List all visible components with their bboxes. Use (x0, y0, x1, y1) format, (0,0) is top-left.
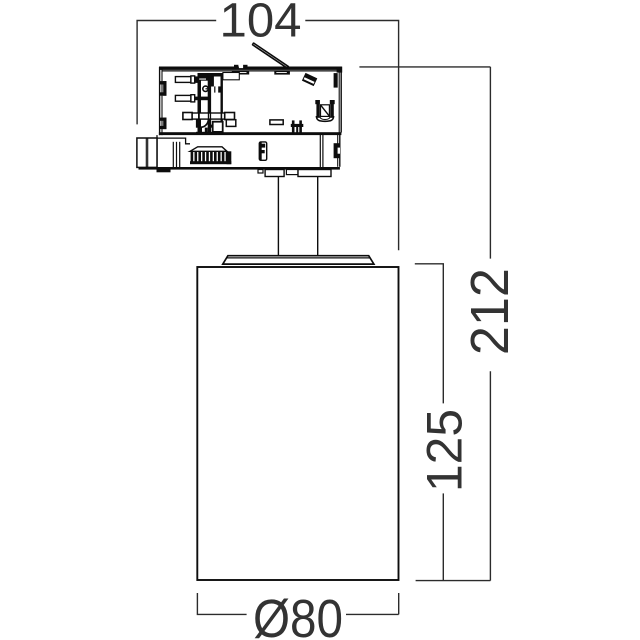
left wall clip upper (160, 81, 167, 96)
carrier column C2 (208, 73, 211, 134)
comb top plate (190, 147, 227, 152)
dim 104 left extension line (137, 21, 216, 125)
housing right wall outer (339, 135, 341, 167)
crossbar (192, 113, 226, 119)
small rect feature (270, 120, 283, 125)
crossbar vertical pass line a (208, 112, 210, 120)
svg-text:212: 212 (461, 268, 520, 355)
carrier left blob (198, 76, 208, 80)
mounting block c (298, 170, 331, 177)
svg-text:Ø80: Ø80 (253, 589, 343, 640)
adapter bottom edge (159, 132, 342, 135)
crossbar right block (225, 113, 235, 120)
adapter top edge (159, 67, 342, 70)
cylinder body (197, 267, 398, 580)
comb teeth (191, 151, 229, 161)
dim 212 line lower (489, 371, 491, 580)
housing right wall inner (337, 135, 339, 167)
left wall clip lower (160, 118, 167, 130)
stem left line (277, 177, 279, 255)
contact prong upper link (195, 76, 198, 83)
crossbar vertical pass line c (220, 112, 222, 120)
contact prong upper cap (191, 76, 195, 83)
carrier column C3 (221, 73, 223, 134)
dim 212 top extension line (359, 66, 490, 68)
crossbar right lower block (226, 120, 236, 127)
carrier column C1 (198, 73, 202, 134)
dim 125 line lower (442, 493, 444, 580)
U-bracket left post hook (315, 100, 320, 104)
crossbar left block (183, 113, 192, 120)
under-crossbar small black sq (210, 125, 212, 128)
mounting block a (265, 170, 284, 177)
carrier w2 dividers (214, 86, 215, 92)
adapter left wall inner (161, 68, 163, 135)
right C-clip (334, 143, 340, 158)
dim d80 left extension tick (197, 593, 246, 614)
comb base (190, 161, 231, 164)
right partition line a (319, 135, 321, 167)
dim 212 bottom extension line (416, 580, 491, 582)
U-bracket left post (316, 100, 319, 118)
carrier top bar (198, 73, 223, 77)
dim 104 right extension line (305, 21, 398, 251)
carrier lower band (194, 97, 209, 101)
U-bracket bottom curve (316, 116, 333, 121)
release lever outer line (253, 43, 288, 67)
adapter top contact pad right (274, 71, 290, 75)
adapter top contact pad left (232, 71, 249, 75)
adapter right wall inner (338, 70, 340, 133)
clip box (137, 138, 157, 167)
under-crossbar arc piece (201, 120, 209, 128)
slot feature dot (261, 150, 264, 153)
U-bracket right post hook (330, 100, 335, 104)
U-bracket right post (330, 100, 334, 118)
slot feature outline (259, 142, 266, 160)
slot feature top square (261, 144, 265, 148)
crossbar vertical pass line d (198, 112, 200, 120)
right partition line b (322, 135, 324, 167)
contact prong upper (175, 77, 191, 83)
carrier thin side box (223, 73, 239, 80)
housing left wall (156, 135, 158, 167)
release lever inner line (252, 45, 287, 69)
clip box inner line a (145, 138, 147, 167)
adapter left wall outer (159, 67, 161, 135)
tilted plate (302, 73, 317, 86)
contact prong lower (175, 95, 191, 101)
dim 125 line upper (442, 264, 444, 404)
svg-text:104: 104 (220, 0, 302, 48)
partition line c (179, 142, 181, 167)
dim d80 right extension tick (346, 593, 399, 614)
contact carrier assembly (194, 73, 240, 134)
mounting small square (258, 170, 263, 174)
under-crossbar teeth (199, 128, 202, 134)
carrier screw circle (203, 86, 208, 91)
under-crossbar white box (213, 122, 223, 132)
svg-text:125: 125 (416, 409, 473, 492)
U-bracket diagonal (321, 105, 330, 116)
right C-clip notch (338, 148, 340, 154)
stand crossbar (291, 124, 304, 127)
stand left leg (292, 120, 295, 133)
housing top step line (157, 138, 190, 144)
stand right leg (299, 120, 302, 133)
U-bracket inner square (321, 105, 330, 117)
release lever tip cap (252, 43, 254, 45)
housing bottom bump (157, 170, 171, 173)
adapter top-right corner cap (337, 67, 343, 73)
comb right post (227, 151, 232, 164)
partition line a (172, 142, 174, 167)
housing bottom edge (139, 167, 340, 170)
adapter right wall outer (340, 67, 342, 133)
stand middle tooth (296, 127, 298, 134)
partition line b (176, 142, 178, 167)
mounting block b (286, 170, 298, 175)
dim 212 line upper (489, 67, 491, 259)
dim 125 top extension line (415, 263, 444, 265)
clip box inner line b (147, 138, 149, 167)
slot feature left bar (259, 142, 261, 160)
stem right line (317, 177, 319, 255)
right wall inner bar (334, 73, 338, 88)
under-crossbar base band (196, 132, 223, 134)
contact prong lower cap (191, 95, 195, 102)
flange trapezoid (223, 256, 374, 264)
carrier mid filler bar (211, 76, 214, 86)
flange inner line (226, 257, 370, 259)
crossbar vertical pass line b (210, 112, 212, 120)
under-crossbar left bar (196, 119, 201, 128)
